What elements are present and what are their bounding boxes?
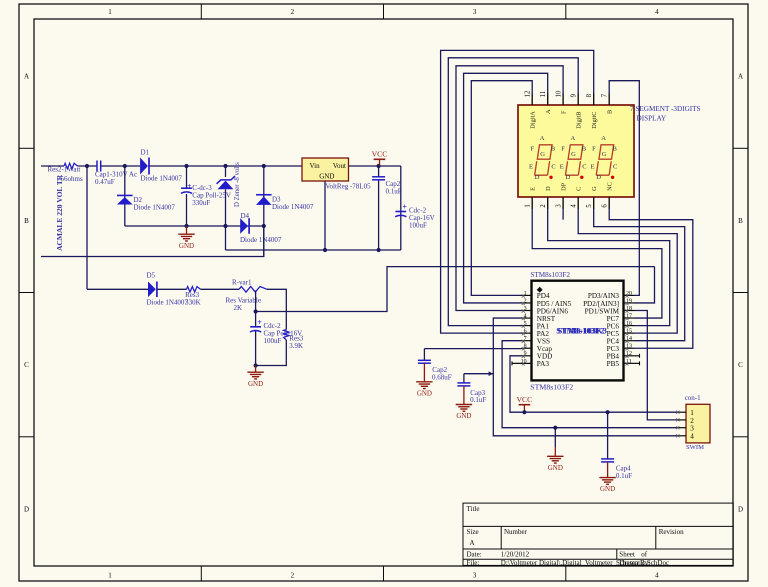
wire D3 vertical <box>263 166 265 257</box>
svg-text:2: 2 <box>291 8 295 16</box>
wire display pin 3 stub end <box>562 209 564 220</box>
power VCC1 <box>372 150 388 166</box>
MCU pin 18 (PD1/SWIM) <box>585 306 634 315</box>
svg-text:100uF: 100uF <box>409 221 427 229</box>
Cap2B labels <box>432 366 452 381</box>
variable resistor R-var1 <box>239 287 267 293</box>
ground GND1 <box>178 226 194 250</box>
svg-text:STM8s103F2: STM8s103F2 <box>530 271 570 279</box>
svg-text:E: E <box>530 187 537 191</box>
svg-text:D: D <box>545 186 552 191</box>
MCU pin 10 (PA3) <box>512 359 549 368</box>
wire display pin 5 to MCU pin 11 <box>594 209 685 341</box>
svg-text:Revision: Revision <box>659 528 684 536</box>
svg-text:D: D <box>24 505 29 513</box>
display title label <box>630 105 701 122</box>
svg-text:D5: D5 <box>147 271 156 279</box>
junction C-dc-3 branch <box>184 164 188 168</box>
svg-text:ACMALE 220 VOL TR: ACMALE 220 VOL TR <box>55 174 64 251</box>
junction D3 branch <box>262 164 266 168</box>
junction reg GND rail <box>323 248 327 252</box>
svg-text:DigitA: DigitA <box>530 111 537 129</box>
svg-text:D: D <box>535 174 540 181</box>
svg-text:B: B <box>551 146 556 153</box>
svg-text:B: B <box>24 217 29 225</box>
svg-text:B: B <box>607 110 614 114</box>
svg-text:of: of <box>641 550 648 558</box>
node AC-L input wire <box>41 165 64 167</box>
svg-text:B: B <box>613 146 618 153</box>
svg-text:10: 10 <box>556 90 563 97</box>
Cdc-2 labels <box>409 207 435 230</box>
svg-text:GND: GND <box>179 242 194 250</box>
display pin 3 (DP) stub <box>555 182 567 209</box>
svg-text:12: 12 <box>525 90 532 97</box>
diode D2 <box>117 195 133 204</box>
svg-text:Sheet: Sheet <box>619 550 635 558</box>
svg-text:11: 11 <box>540 91 547 98</box>
ground GND3 <box>416 363 432 397</box>
MCU pin 11 (PB5) <box>607 359 640 368</box>
svg-text:E: E <box>560 164 564 171</box>
MCU pin 2 (PD5 / AIN5) <box>522 298 572 307</box>
C-dc-3 labels <box>192 184 231 207</box>
svg-text:Number: Number <box>504 528 528 536</box>
capacitor C-dc-3 <box>181 181 192 193</box>
voltage regulator U-78L05 <box>302 158 349 181</box>
Cdc-2B labels <box>264 322 303 345</box>
Res3 330K labels <box>185 291 201 307</box>
svg-text:GND: GND <box>248 380 263 388</box>
svg-text:Vout: Vout <box>333 162 346 170</box>
svg-text:56ohms: 56ohms <box>61 175 83 183</box>
svg-text:G: G <box>591 186 598 191</box>
svg-text:4: 4 <box>524 313 527 319</box>
capacitor Cap3 <box>457 374 470 386</box>
VoltReg -78L05 label <box>325 183 371 191</box>
svg-text:9: 9 <box>524 351 527 357</box>
junction at Res2 output <box>85 164 89 168</box>
label ACMALE 220 VOL TR <box>55 174 64 251</box>
svg-text:G: G <box>602 151 607 158</box>
MCU pin 12 (PB4) <box>607 351 640 360</box>
wire Res2 to Cap1 <box>78 165 98 167</box>
wire Vcap to Cap2B <box>424 348 521 350</box>
svg-text:+: + <box>187 181 191 190</box>
Cap3 labels <box>470 389 486 404</box>
MCU pin 7 (VSS) <box>522 336 550 345</box>
svg-text:2: 2 <box>524 298 527 304</box>
svg-text:GND: GND <box>548 464 563 472</box>
svg-text:NC: NC <box>607 182 614 191</box>
svg-text:A: A <box>545 109 552 114</box>
resistor Res3 3.9K <box>284 330 289 341</box>
svg-text:DigitC: DigitC <box>591 112 598 129</box>
svg-text:DP: DP <box>560 182 567 191</box>
wire display pin 1 to MCU pin 14 <box>532 209 662 319</box>
svg-text:VCC: VCC <box>516 395 532 404</box>
svg-text:GND: GND <box>456 412 471 420</box>
title block Title label <box>467 505 480 513</box>
svg-text:3: 3 <box>473 572 477 580</box>
display pin 4 (C) stub <box>570 187 582 209</box>
wire display pin 4 to MCU pin 12 <box>578 209 677 334</box>
junction VCC node <box>377 164 381 168</box>
svg-text:1: 1 <box>524 204 531 207</box>
svg-text:con-1: con-1 <box>685 394 701 402</box>
svg-text:D: D <box>566 174 571 181</box>
MCU pin 15 (PC5) <box>607 329 634 338</box>
7-seg digit 1 letter labels <box>529 135 556 181</box>
svg-text:2K: 2K <box>234 304 243 312</box>
svg-text:100uF: 100uF <box>264 337 282 345</box>
junction Cap2 bottom <box>377 248 381 252</box>
svg-text:D: D <box>738 505 743 513</box>
junction D2 branch <box>123 164 127 168</box>
wire Cap1 to D1 <box>101 165 140 167</box>
7-seg digit 3 segments <box>596 145 614 179</box>
title block Size row <box>467 528 685 547</box>
MCU pin 4 (NRST) <box>522 313 556 322</box>
display pin 5 (G) stub <box>586 186 598 209</box>
MCU pin 5 (PA1) <box>522 321 550 330</box>
wire display pin 11 to MCU pin 2 <box>464 73 548 303</box>
svg-text:1/20/2012: 1/20/2012 <box>501 550 530 558</box>
MCU U1 STM8s103F2 body <box>532 281 624 381</box>
junction bottom rail at D3 <box>262 224 266 228</box>
wire D5 row from AC-L <box>87 288 148 290</box>
wire D1 to regulator Vin <box>149 165 302 167</box>
capacitor Cap2 0.1uF <box>372 177 385 180</box>
svg-text:C: C <box>576 187 583 191</box>
display pin 8 (DigitC) stub <box>586 93 598 128</box>
7-seg digit 3 letter labels <box>591 135 618 181</box>
svg-text:4: 4 <box>570 204 577 208</box>
wire regulator GND pin <box>324 181 326 250</box>
svg-text:DigitB: DigitB <box>576 112 583 129</box>
svg-text:Diode 1N4007: Diode 1N4007 <box>240 236 282 244</box>
svg-text:Diode 1N4007: Diode 1N4007 <box>134 203 176 211</box>
svg-text:2: 2 <box>540 204 547 208</box>
arrow junction NRST-Cap3 <box>489 371 494 376</box>
power VCC2 <box>516 395 532 412</box>
svg-text:5: 5 <box>586 204 593 208</box>
capacitor Cap2 0.68uF <box>418 349 431 364</box>
svg-text:Diode 1N4007: Diode 1N4007 <box>147 299 189 307</box>
svg-text:3: 3 <box>524 306 527 312</box>
junction Cap4 branch <box>606 410 610 414</box>
display pin 6 (NC) stub <box>601 182 613 209</box>
svg-text:B: B <box>582 146 587 153</box>
svg-text:8: 8 <box>586 93 593 97</box>
wire display pin 10 to MCU pin 3 <box>456 66 563 311</box>
wire Res3 to R-var1 <box>201 288 240 290</box>
MCU pin 8 (Vcap) <box>522 344 553 353</box>
svg-text:7: 7 <box>602 93 609 97</box>
junction bottom rail at zener <box>223 224 227 228</box>
svg-text:VoltReg -78L05: VoltReg -78L05 <box>325 183 371 191</box>
ground GND6 <box>599 462 615 493</box>
wire Cap2 branch <box>378 166 380 250</box>
wire R-var1 wiper down <box>255 291 257 312</box>
D3 labels <box>272 196 314 211</box>
svg-text:C: C <box>738 361 743 369</box>
wire display pin 8 to MCU pin 6 <box>441 50 594 333</box>
junction zener branch <box>223 164 227 168</box>
svg-text:GND: GND <box>600 485 615 493</box>
title block Date row <box>467 550 648 558</box>
svg-text:C: C <box>582 164 586 171</box>
svg-text:Date:: Date: <box>467 550 482 558</box>
Cap2 labels <box>386 180 402 195</box>
Res3 3.9K labels <box>289 334 304 350</box>
MCU pin 13 (PC3) <box>607 344 634 353</box>
con-1 designator <box>685 394 701 402</box>
7-seg digit 2 segments <box>565 145 583 179</box>
wire bridge bottom rail <box>125 225 264 227</box>
svg-text:File:: File: <box>467 559 480 567</box>
D5 labels <box>147 271 189 306</box>
svg-text:C: C <box>613 164 617 171</box>
wire AC-N lower rail <box>41 226 264 257</box>
svg-text:G: G <box>571 151 576 158</box>
diode D4 <box>240 218 249 234</box>
svg-text:1: 1 <box>108 572 112 580</box>
svg-text:R-var1: R-var1 <box>232 278 252 286</box>
svg-text:Vin: Vin <box>310 162 321 170</box>
wire D5 to Res3 <box>157 288 187 290</box>
junction divider node <box>254 309 258 313</box>
svg-text:A: A <box>24 73 29 81</box>
wire display pin 12 to MCU pin 1 <box>471 81 532 296</box>
resistor Res3 330K <box>187 287 201 292</box>
D1 labels <box>141 148 183 182</box>
svg-text:GND: GND <box>319 173 334 181</box>
con-1 pin 4 <box>676 433 694 441</box>
svg-text:0.1uF: 0.1uF <box>616 472 632 480</box>
svg-text:3: 3 <box>555 204 562 208</box>
svg-text:+: + <box>402 203 407 212</box>
wire display pin 2 to MCU pin 13 <box>548 209 670 326</box>
display DS1 body <box>518 105 634 197</box>
MCU pin 3 (PD6/AIN6) <box>522 306 569 315</box>
MCU pin 16 (PC6) <box>607 321 634 330</box>
wire Vout corner down through Cdc-2 <box>400 166 402 250</box>
svg-text:B: B <box>738 217 743 225</box>
MCU pin 14 (PC4) <box>607 336 634 345</box>
svg-text:DISPLAY: DISPLAY <box>637 115 667 123</box>
svg-text:2: 2 <box>690 417 694 425</box>
svg-text:VCC: VCC <box>372 150 388 159</box>
wire down to zener <box>225 166 227 177</box>
svg-text:A: A <box>470 539 475 547</box>
svg-text:4: 4 <box>690 433 694 441</box>
svg-text:7: 7 <box>524 336 527 342</box>
svg-text:Diode 1N4007: Diode 1N4007 <box>141 174 183 182</box>
wire Cap4 branch <box>607 412 609 459</box>
Res2 value labels <box>48 165 83 183</box>
junction bottom rail at C-dc-3 <box>184 224 188 228</box>
MCU comment label <box>530 382 573 391</box>
display pin 2 (D) stub <box>540 186 552 209</box>
svg-text:Diode 1N4007: Diode 1N4007 <box>272 203 314 211</box>
wire Vout to VCC node <box>349 165 401 167</box>
svg-text:0.1uF: 0.1uF <box>386 188 402 196</box>
svg-text:A: A <box>601 135 606 142</box>
svg-text:STM8s103F2: STM8s103F2 <box>530 382 573 391</box>
wire C-dc-3 to bottom rail <box>186 194 188 226</box>
display pin 10 (F) stub <box>556 90 568 114</box>
Cap4 labels <box>616 464 632 480</box>
MCU part number text <box>556 326 607 335</box>
svg-text:C: C <box>551 164 555 171</box>
capacitor Cap4 <box>601 459 614 462</box>
capacitor Cap1 <box>97 161 101 172</box>
svg-text:PA3: PA3 <box>537 360 550 368</box>
svg-text:A: A <box>540 135 545 142</box>
D4 labels <box>240 212 282 244</box>
wire AC-L down to D5 row <box>86 166 88 289</box>
diode D1 <box>140 158 149 175</box>
wire MCU pin 18 to SWIM pin 2 <box>634 311 677 420</box>
title block frame <box>463 503 733 565</box>
svg-text:1: 1 <box>524 291 527 297</box>
wire NRST net <box>493 318 676 436</box>
con-1 pin 1 <box>676 409 694 417</box>
display pin 7 (B) stub <box>602 93 614 114</box>
ground GND5 <box>547 447 563 472</box>
svg-text:Title: Title <box>467 505 480 513</box>
wire zener to rails <box>225 190 227 251</box>
svg-text:SWIM: SWIM <box>686 444 704 451</box>
display pin 9 (DigitB) stub <box>571 93 583 128</box>
svg-text:4: 4 <box>655 572 659 580</box>
svg-text:8: 8 <box>524 344 527 350</box>
con-1 pin 3 <box>676 425 694 433</box>
display pin 11 (A) stub <box>540 91 552 114</box>
wire Res3 3.9K to bottom <box>256 340 287 366</box>
svg-text:6: 6 <box>601 204 608 208</box>
svg-text:1: 1 <box>108 8 112 16</box>
svg-text:PB5: PB5 <box>607 360 620 368</box>
svg-text:3: 3 <box>690 425 694 433</box>
junction VSS ground <box>553 426 557 430</box>
svg-text:GND: GND <box>417 389 432 397</box>
svg-text:G: G <box>540 151 545 158</box>
title block File row <box>467 559 670 567</box>
wire Cap3 to NRST <box>464 373 493 375</box>
wire GND5 drop <box>554 428 556 447</box>
svg-text:0.1uF: 0.1uF <box>470 396 486 404</box>
connector con-1 body <box>686 404 710 443</box>
wire Cdc-2B branch <box>255 312 257 366</box>
wire MCU pin 19 from divider <box>634 267 655 303</box>
wire divider node to MCU AIN <box>256 267 655 312</box>
wire VDD net to SWIM pin 1 <box>510 356 677 412</box>
svg-text:330K: 330K <box>185 299 201 307</box>
junction divider bottom <box>254 363 258 367</box>
zener diode D-Zener <box>217 176 235 189</box>
diode D3 <box>256 195 272 205</box>
junction VCC2 <box>522 410 526 414</box>
svg-text:0.68uF: 0.68uF <box>432 374 452 382</box>
svg-text:4: 4 <box>655 8 659 16</box>
MCU pin 9 (VDD) <box>522 351 553 360</box>
svg-text:D: D <box>596 174 601 181</box>
wire display pin 9 to MCU pin 5 <box>448 58 578 326</box>
D2 labels <box>134 196 176 211</box>
svg-text:3.9K: 3.9K <box>289 342 303 350</box>
svg-text:A: A <box>571 135 576 142</box>
MCU pin 1 marker <box>537 287 543 293</box>
resistor Res2 <box>64 163 78 168</box>
svg-text:C: C <box>24 361 29 369</box>
capacitor Cdc-2 16V <box>395 203 407 217</box>
D-Zener label <box>234 162 241 207</box>
display pin 1 (E) stub <box>524 187 536 209</box>
svg-text:0.47uF: 0.47uF <box>95 178 115 186</box>
svg-text:D Zener -8 volts: D Zener -8 volts <box>234 162 241 207</box>
svg-text:F: F <box>592 146 596 153</box>
svg-text:E: E <box>529 164 533 171</box>
7-seg digit 1 segments <box>535 145 553 179</box>
Cap1 value labels <box>95 171 137 186</box>
svg-text:5: 5 <box>524 321 527 327</box>
svg-text:F: F <box>531 146 535 153</box>
svg-text:A: A <box>738 73 743 81</box>
svg-text:F: F <box>560 110 567 114</box>
wire down to C-dc-3 <box>186 166 188 188</box>
wire display pin 7 to MCU pin 20 <box>609 81 639 296</box>
svg-text:Size: Size <box>467 528 479 536</box>
display pin 12 (DigitA) stub <box>525 90 537 129</box>
svg-text:Drawn By:: Drawn By: <box>619 559 650 567</box>
7-seg digit 2 letter labels <box>560 135 587 181</box>
svg-text:330uF: 330uF <box>192 199 210 207</box>
con-1 SWIM label <box>686 444 704 451</box>
wire VSS net to SWIM pin 3 <box>502 341 676 428</box>
capacitor Cdc-2 Poll-16V <box>250 318 262 332</box>
wire display pin 6 to MCU pin 10 <box>609 209 693 349</box>
svg-text:9: 9 <box>571 93 578 97</box>
wire R-var1 to right branch <box>267 289 286 329</box>
MCU designator label <box>530 271 570 279</box>
svg-text:E: E <box>591 164 595 171</box>
svg-text:2: 2 <box>291 572 295 580</box>
diode D5 <box>148 282 157 298</box>
ground GND4 <box>456 386 472 420</box>
MCU pin 6 (PA2) <box>522 329 550 338</box>
svg-text:7 SEGMENT -3DIGITS: 7 SEGMENT -3DIGITS <box>630 105 701 113</box>
svg-text:6: 6 <box>524 329 527 335</box>
svg-text:3: 3 <box>473 8 477 16</box>
MCU pin 17 (PC7) <box>607 313 634 322</box>
svg-text:F: F <box>561 146 565 153</box>
MCU pin 1 (PD4) <box>522 291 550 300</box>
svg-text:Res2-1Watt: Res2-1Watt <box>48 165 81 173</box>
svg-text:D4: D4 <box>241 212 250 220</box>
svg-text:D1: D1 <box>141 148 150 156</box>
svg-text:+: + <box>257 318 262 327</box>
MCU pin 20 (PD3/AIN3) <box>588 291 634 300</box>
wire regulator ground rail <box>226 249 401 251</box>
MCU pin 19 (PD2/[AIN3]) <box>583 298 634 307</box>
ground GND2 <box>247 366 263 388</box>
R-var1 labels <box>226 278 261 312</box>
svg-text:STM8-103K3: STM8-103K3 <box>558 326 607 335</box>
con-1 pin 2 <box>676 417 694 425</box>
wire down to D2 <box>124 166 126 226</box>
